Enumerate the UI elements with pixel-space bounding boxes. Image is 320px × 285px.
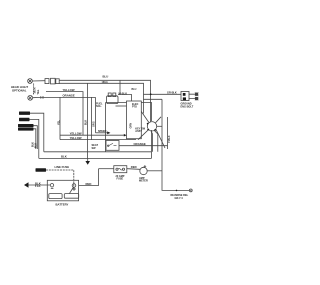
key switch terminal dots	[147, 129, 149, 131]
svg-text:YELLOW: YELLOW	[63, 88, 75, 92]
svg-text:ASSY: ASSY	[135, 130, 142, 133]
lamp2 inline connector ticks	[41, 96, 43, 99]
wire ammeter right	[147, 170, 162, 172]
junction dot	[150, 93, 152, 95]
svg-text:BLK: BLK	[61, 154, 67, 158]
wire blue top	[59, 80, 150, 121]
vertical to reverse relay	[162, 99, 189, 190]
eyelet terminal 1	[195, 93, 198, 96]
wire tag1	[30, 113, 44, 152]
label tag 2	[19, 118, 30, 121]
battery strap	[70, 187, 74, 193]
wire fuse to ammeter	[127, 168, 140, 171]
svg-text:METER: METER	[139, 180, 148, 183]
svg-text:ORG: ORG	[93, 121, 96, 127]
wire to battery plus	[46, 170, 74, 188]
svg-text:Y-BLK: Y-BLK	[168, 135, 171, 143]
wire lamp1 to connector	[32, 80, 45, 82]
svg-text:YELLOW: YELLOW	[70, 136, 82, 140]
wire lamp2 orange	[33, 96, 96, 98]
svg-text:BLU: BLU	[103, 75, 109, 79]
reverse relay eyelet	[189, 189, 192, 192]
svg-text:GR-7-4: GR-7-4	[175, 197, 184, 200]
connector J1	[45, 79, 49, 84]
wire stub top right	[144, 98, 163, 100]
wire tag4	[34, 129, 36, 149]
battery negative terminal	[50, 184, 53, 187]
relay narrow box	[127, 101, 142, 139]
ground arrow down	[87, 158, 89, 161]
bus right end vertical	[151, 152, 153, 159]
connector J2	[51, 78, 56, 84]
svg-text:SPEED: SPEED	[98, 130, 107, 133]
svg-text:BLK: BLK	[35, 181, 41, 185]
vertical x91.5	[91, 97, 93, 139]
wire w-blk	[118, 95, 132, 102]
svg-text:BLK: BLK	[85, 120, 88, 125]
yellow wire H1	[60, 134, 124, 136]
ammeter circle	[140, 165, 147, 175]
headlight lamp 1	[28, 79, 33, 84]
fuse label tag	[36, 168, 47, 171]
battery cell 1	[49, 194, 62, 199]
fuse wire left	[99, 168, 114, 170]
label tag 3	[18, 124, 34, 127]
svg-text:BLU: BLU	[132, 88, 137, 91]
svg-text:BLK: BLK	[32, 142, 35, 147]
fuse box	[114, 166, 127, 173]
eyelet terminal 2	[195, 97, 198, 100]
battery cell 2	[64, 194, 78, 199]
svg-text:PTO: PTO	[132, 106, 137, 109]
top right connector box	[181, 92, 189, 101]
svg-text:ENG BOLT: ENG BOLT	[181, 106, 194, 109]
svg-text:ORANGE: ORANGE	[134, 142, 146, 146]
branch wire down x88	[87, 83, 89, 158]
svg-text:LINE FUSE: LINE FUSE	[55, 165, 70, 169]
wire tag2	[30, 119, 39, 158]
svg-text:RED: RED	[131, 165, 137, 169]
svg-text:6 GA: 6 GA	[35, 185, 41, 188]
svg-text:SW: SW	[92, 147, 97, 150]
svg-text:BATTERY: BATTERY	[56, 202, 69, 206]
wire fuel to relay box	[116, 105, 127, 107]
svg-text:BLK: BLK	[35, 143, 38, 148]
lamp link dashes	[33, 84, 35, 96]
seat switch box	[106, 141, 119, 151]
fuel solenoid connector	[107, 93, 119, 104]
yellow wire H2	[60, 139, 136, 141]
branch wire down x120	[119, 80, 121, 94]
headlight lamp 2	[28, 95, 33, 100]
svg-text:OPTIONAL: OPTIONAL	[12, 88, 27, 92]
svg-text:SOL.: SOL.	[96, 105, 102, 108]
svg-text:W-BLK: W-BLK	[119, 91, 128, 95]
ground bus upper line	[44, 151, 152, 153]
svg-text:18GA: 18GA	[34, 87, 37, 93]
vertical y-blk	[167, 117, 169, 149]
key switch circle	[147, 122, 156, 131]
svg-text:YEL: YEL	[37, 89, 40, 94]
top right connector wire	[144, 93, 182, 95]
orange wire right	[119, 145, 168, 147]
battery box	[47, 180, 78, 201]
battery minus mark	[51, 187, 54, 189]
connector pin stubs	[189, 94, 195, 98]
reverse relay node dot	[176, 190, 178, 192]
svg-text:16GA: 16GA	[102, 81, 109, 84]
battery positive terminal	[72, 184, 76, 188]
label tag 4	[18, 128, 34, 131]
funnel to key switch	[138, 112, 149, 140]
wire black top second	[59, 83, 143, 113]
ground arrow left	[24, 182, 29, 188]
vertical x95.5	[95, 97, 97, 132]
svg-text:ORANGE: ORANGE	[63, 94, 75, 98]
switch spokes	[156, 117, 162, 123]
main enclosure box	[106, 103, 152, 152]
svg-text:GR-BLK: GR-BLK	[167, 92, 177, 95]
svg-text:YEL: YEL	[58, 120, 61, 125]
wire battery plus to fuse	[79, 169, 99, 186]
wire ground to battery	[29, 184, 51, 186]
svg-text:GRN: GRN	[129, 123, 132, 129]
svg-text:RED: RED	[86, 182, 92, 186]
connector J3	[56, 79, 59, 84]
ground bus lower line	[39, 157, 152, 159]
wire tag3	[34, 126, 38, 149]
wire yellow upper	[46, 92, 83, 136]
label tag 1	[19, 112, 30, 115]
speed wire with arrow	[96, 132, 109, 134]
vertical x60	[59, 97, 61, 139]
svg-text:FUSE: FUSE	[117, 178, 124, 181]
